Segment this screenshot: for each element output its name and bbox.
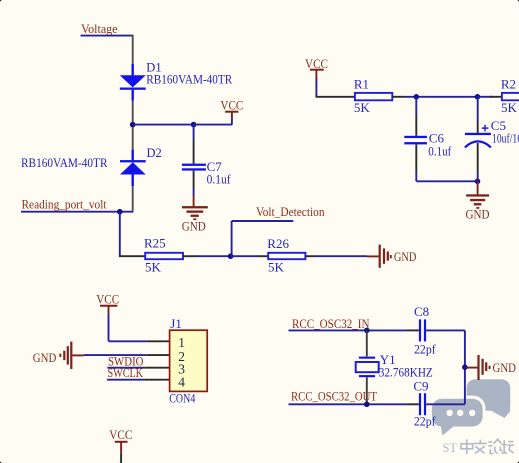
resistor R25 xyxy=(145,253,183,259)
wire SWCLK to pin 4 xyxy=(107,379,144,381)
svg-text:0.1uf: 0.1uf xyxy=(207,172,232,187)
svg-text:5K: 5K xyxy=(501,100,518,115)
坛 xyxy=(502,440,514,453)
node junction E xyxy=(475,94,481,100)
svg-text:Volt_Detection: Volt_Detection xyxy=(256,204,325,219)
svg-text:R26: R26 xyxy=(267,236,289,251)
resistor R26 xyxy=(268,253,305,259)
ground (earth) right of R26 xyxy=(379,245,417,268)
svg-text:C8: C8 xyxy=(414,304,429,319)
node junction H xyxy=(364,402,370,408)
node junction I xyxy=(462,364,468,370)
svg-text:10uf/16V: 10uf/16V xyxy=(492,130,519,145)
svg-text:0.1uf: 0.1uf xyxy=(428,143,452,158)
capacitor C6 xyxy=(404,97,427,182)
svg-text:VCC: VCC xyxy=(305,56,328,71)
ground GND under C7 xyxy=(182,195,208,233)
svg-text:GND: GND xyxy=(33,350,57,365)
svg-text:GND: GND xyxy=(493,360,517,375)
svg-text:R25: R25 xyxy=(144,236,166,251)
connector J1 body xyxy=(170,330,208,391)
wire node C to R26 xyxy=(231,255,258,257)
ground (earth) right of crystal xyxy=(477,355,516,380)
svg-text:RCC_OSC32_OUT: RCC_OSC32_OUT xyxy=(291,388,377,403)
resistor R1 xyxy=(355,93,392,100)
svg-text:CON4: CON4 xyxy=(169,390,195,405)
wire corner to R25 left (dark) xyxy=(119,255,145,257)
watermark front bubble halo xyxy=(426,396,485,437)
wire node I to ground xyxy=(465,366,467,368)
node junction B xyxy=(191,122,197,128)
svg-text:32.768KHZ: 32.768KHZ xyxy=(379,364,433,379)
svg-text:Voltage: Voltage xyxy=(81,21,118,36)
capacitor C5 (polarized) xyxy=(465,97,491,182)
svg-text:D2: D2 xyxy=(147,146,162,160)
文 xyxy=(474,440,487,454)
resistor R2 (clipped at edge) xyxy=(502,93,519,100)
watermark dots xyxy=(446,410,475,416)
svg-text:RCC_OSC32_IN: RCC_OSC32_IN xyxy=(292,316,370,331)
wire down to R25 xyxy=(119,212,121,257)
svg-text:5K: 5K xyxy=(354,100,371,115)
svg-text:VCC: VCC xyxy=(220,97,243,112)
node junction F xyxy=(475,179,481,185)
wire RCC_OSC32_IN xyxy=(289,329,408,331)
wire vertical to D1 (dark) xyxy=(132,35,134,64)
diode D1 xyxy=(120,64,146,101)
svg-text:GND: GND xyxy=(394,249,417,264)
svg-text:RB160VAM-40TR: RB160VAM-40TR xyxy=(146,73,233,87)
ground GND under C5 xyxy=(466,181,490,221)
wire node B to VCC stem xyxy=(194,124,232,126)
svg-text:J1: J1 xyxy=(170,316,182,331)
svg-text:R2: R2 xyxy=(501,77,516,92)
wire Voltage horizontal xyxy=(81,35,134,37)
node junction C xyxy=(228,253,234,259)
watermark front bubble xyxy=(432,399,483,436)
wire node E to R2 (dark) xyxy=(478,96,493,98)
capacitor C7 xyxy=(182,125,206,196)
svg-text:5K: 5K xyxy=(268,260,285,275)
svg-text:RB160VAM-40TR: RB160VAM-40TR xyxy=(21,156,108,170)
svg-text:C9: C9 xyxy=(413,379,428,394)
power port VCC (bottom) xyxy=(109,427,132,463)
论 xyxy=(488,439,502,453)
node junction D xyxy=(414,94,420,100)
ground (earth) left of J1 xyxy=(33,342,84,369)
capacitor C8 xyxy=(419,319,465,341)
svg-text:4: 4 xyxy=(178,374,185,389)
wire R25 to node C xyxy=(183,255,196,257)
power port VCC (top right) xyxy=(305,56,328,97)
power port VCC (J1) xyxy=(96,292,119,342)
crystal Y1 xyxy=(356,357,379,405)
svg-text:GND: GND xyxy=(466,206,490,221)
capacitor C9 xyxy=(419,393,465,415)
wire D1 to node (dark) xyxy=(132,101,134,123)
svg-text:R1: R1 xyxy=(354,77,369,92)
wire Volt_Detection xyxy=(232,221,294,256)
wire GND to pin 2 xyxy=(84,354,147,356)
wire R26 to ground xyxy=(305,255,315,257)
diode D2 xyxy=(120,127,146,211)
node junction A xyxy=(130,122,136,128)
svg-text:5K: 5K xyxy=(145,260,162,275)
node junction on label wire xyxy=(117,209,123,215)
bottom rail C6-C5 xyxy=(416,180,477,182)
wire Reading_port_volt xyxy=(21,211,133,213)
svg-text:VCC: VCC xyxy=(109,427,132,442)
node junction G xyxy=(364,328,370,334)
wire node G down to crystal xyxy=(366,330,368,356)
svg-text:GND: GND xyxy=(182,218,206,233)
wire R1 to node D xyxy=(392,96,405,98)
watermark text 中文论坛 (stroke imitation) xyxy=(461,439,514,454)
中 xyxy=(461,440,473,455)
svg-text:22pf: 22pf xyxy=(414,414,436,429)
svg-text:VCC: VCC xyxy=(96,292,119,307)
svg-text:Reading_port_volt: Reading_port_volt xyxy=(22,196,107,211)
wire RCC_OSC32_OUT xyxy=(289,403,408,405)
wire VCC to pin 1 xyxy=(109,340,147,342)
svg-text:ST: ST xyxy=(443,440,458,455)
wire right rail xyxy=(464,330,466,404)
svg-text:22pf: 22pf xyxy=(414,341,436,356)
wire node A to node B xyxy=(133,124,194,126)
watermark back bubble xyxy=(467,379,511,411)
wire VCC to R1 (dark) xyxy=(316,96,355,98)
svg-text:SWCLK: SWCLK xyxy=(108,365,144,380)
wire SWDIO to pin 3 xyxy=(107,367,144,369)
power port VCC (node) xyxy=(220,97,243,125)
